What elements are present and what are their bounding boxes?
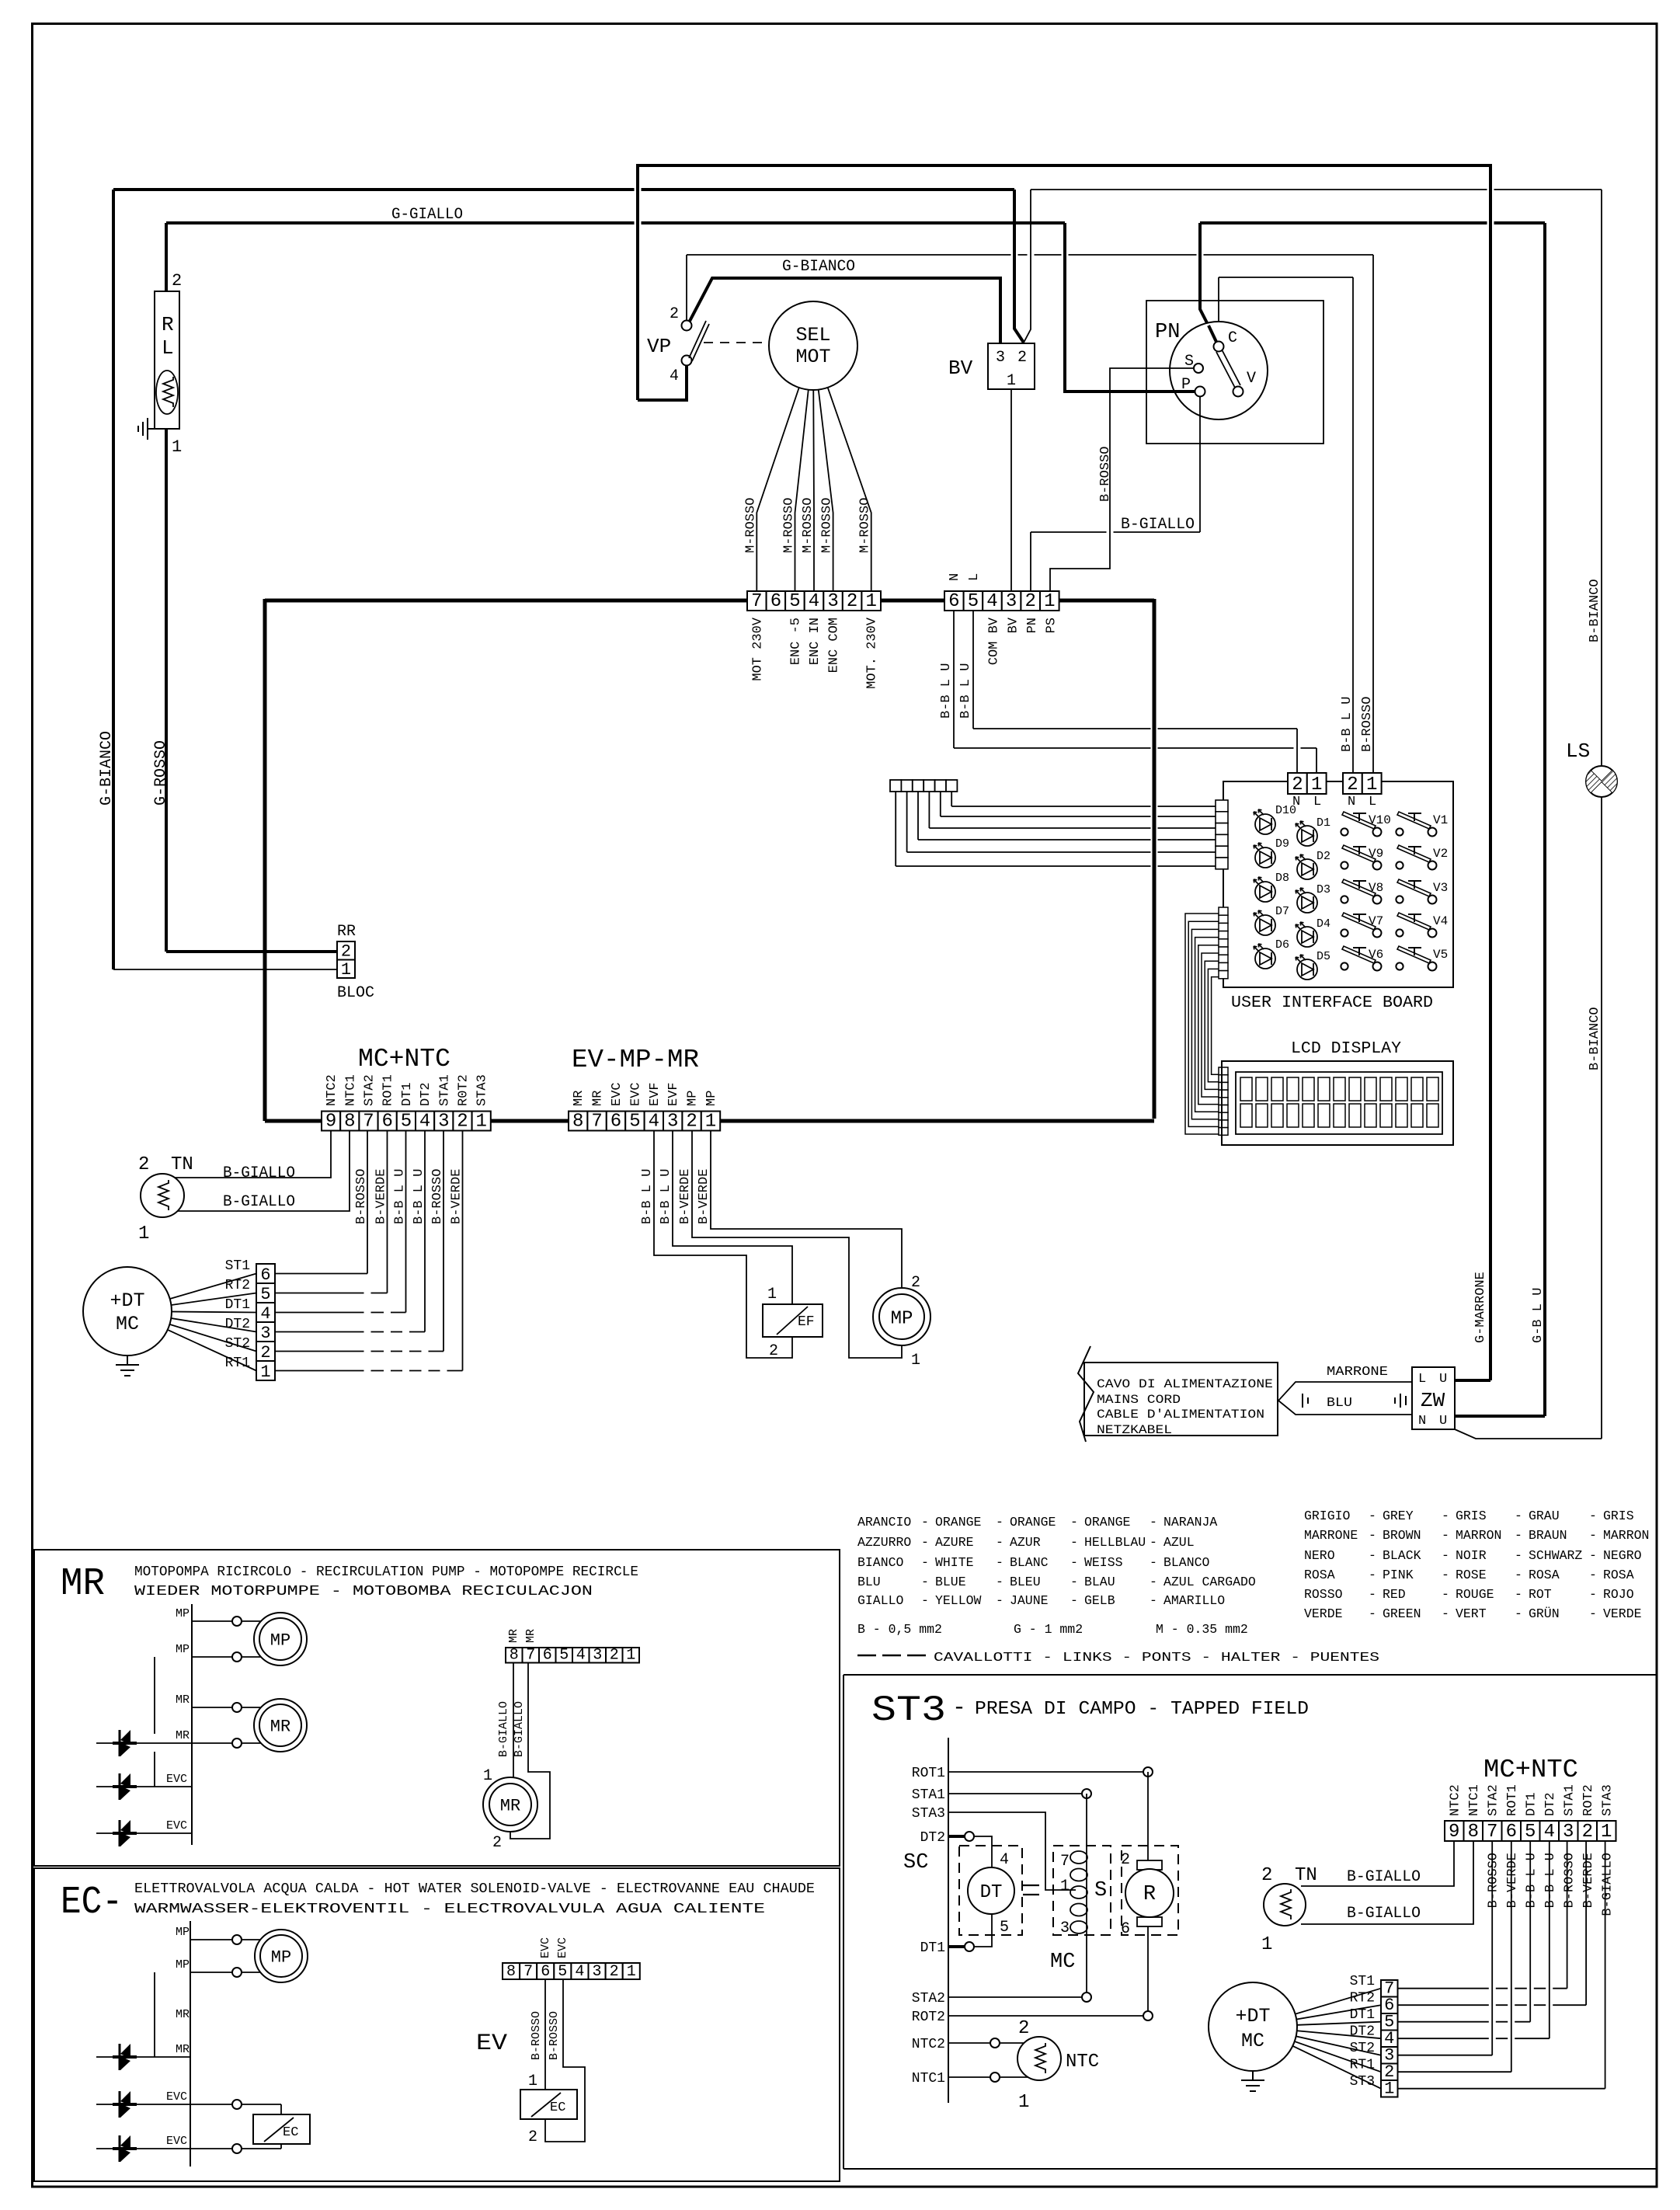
svg-text:MAINS CORD: MAINS CORD [1097,1393,1181,1407]
wires TN ST3 [1301,1841,1454,1886]
svg-text:D7: D7 [1275,905,1289,918]
svg-text:G-B L U: G-B L U [1531,1288,1546,1343]
svg-text:-: - [1150,1515,1157,1530]
wire left vertical G-BIANCO [112,190,115,969]
svg-text:B-ROSSO: B-ROSSO [548,2011,561,2060]
svg-text:ROT1: ROT1 [912,1766,945,1781]
svg-text:3: 3 [593,1647,602,1665]
wire STA3 tap [948,1812,1076,1890]
EC section rail [190,1921,191,2166]
svg-text:B-B L U: B-B L U [640,1169,655,1224]
svg-text:MC: MC [1241,2030,1264,2052]
ST3 section box [843,1675,1657,2169]
svg-text:G-ROSSO: G-ROSSO [152,740,170,806]
svg-text:EV-MP-MR: EV-MP-MR [572,1046,699,1074]
svg-text:1: 1 [1044,591,1055,612]
wires SEL MOT to connector [757,346,813,591]
wire BV pin2 thick drop with kink [1014,190,1024,343]
svg-text:-: - [1150,1535,1157,1550]
svg-text:8: 8 [572,1112,583,1133]
wire BV pin2 thin companion [1024,190,1031,343]
svg-text:B-VERDE: B-VERDE [374,1169,389,1224]
dashed box SC [959,1846,1022,1935]
PN pins [1214,342,1224,352]
svg-text:-: - [1442,1509,1449,1523]
svg-text:2: 2 [911,1274,920,1292]
svg-text:ELETTROVALVOLA ACQUA CALDA - H: ELETTROVALVOLA ACQUA CALDA - HOT WATER S… [134,1881,815,1897]
svg-text:6: 6 [948,591,959,612]
svg-text:WIEDER MOTORPUMPE - MOTOBOMBA: WIEDER MOTORPUMPE - MOTOBOMBA RECICULACJ… [134,1584,593,1599]
svg-text:EV: EV [476,2031,507,2057]
svg-text:1: 1 [172,437,182,457]
wire ZW to LS return [1455,1429,1602,1439]
svg-text:7: 7 [591,1112,602,1133]
svg-text:-: - [1589,1509,1597,1523]
svg-text:-: - [1515,1587,1522,1602]
wire bus y287 right segment to ZW N [1200,221,1545,224]
svg-text:MR: MR [176,1693,190,1707]
svg-text:-: - [1070,1515,1078,1530]
LCD display [1222,1061,1453,1145]
svg-text:L: L [1313,795,1321,809]
svg-text:EC: EC [283,2125,298,2140]
svg-text:6: 6 [260,1265,270,1285]
svg-text:EF: EF [798,1314,815,1330]
svg-text:AZUR: AZUR [1010,1535,1041,1550]
svg-text:+DT: +DT [110,1289,144,1312]
svg-text:1: 1 [1007,372,1016,390]
svg-text:B-B L U: B-B L U [958,663,973,719]
wire PN C feed inside circle [1209,325,1216,342]
svg-text:B-GIALLO: B-GIALLO [1121,516,1195,534]
svg-text:ZW: ZW [1421,1389,1445,1412]
svg-text:DT2: DT2 [225,1317,250,1332]
svg-text:ENC -5: ENC -5 [789,618,804,665]
svg-text:VERDE: VERDE [1304,1606,1343,1621]
svg-text:DT1: DT1 [400,1082,415,1106]
svg-text:L: L [967,573,982,581]
svg-text:-: - [921,1555,929,1570]
svg-text:1: 1 [1311,774,1322,795]
svg-text:LS: LS [1566,740,1590,763]
PN switch bar [1216,350,1240,388]
svg-text:3: 3 [827,591,838,612]
svg-text:-: - [1070,1555,1078,1570]
svg-text:-: - [1070,1593,1078,1608]
svg-text:-: - [1150,1555,1157,1570]
svg-text:RT1: RT1 [1350,2058,1375,2073]
wires DT-MC ST3 connector to strip [1397,1988,1567,1989]
connector DT-MC ST3 7p [1381,1979,1398,2099]
capacitor marks [1023,1885,1039,1886]
svg-text:M-ROSSO: M-ROSSO [801,498,816,553]
svg-text:B-B L U: B-B L U [393,1169,408,1224]
svg-text:4: 4 [670,367,679,385]
motor DT in SC [968,1867,1014,1914]
ground at +DT MC [127,1356,128,1365]
svg-text:ORANGE: ORANGE [1084,1515,1131,1530]
svg-text:-: - [996,1515,1003,1530]
svg-text:-: - [1589,1568,1597,1582]
svg-text:STA2: STA2 [1486,1784,1501,1816]
svg-text:PN: PN [1025,618,1040,633]
svg-text:S: S [1094,1879,1107,1902]
wires DT-MC motor to connector [127,1274,256,1312]
svg-text:MR: MR [572,1091,586,1106]
svg-text:ROSE: ROSE [1456,1568,1487,1582]
svg-text:SC: SC [903,1851,928,1874]
svg-text:MP: MP [176,1643,190,1656]
wires signal connector to UI board stack [895,792,896,866]
wire ZW N to G-B L U [1455,1415,1545,1418]
svg-text:ROT1: ROT1 [1505,1784,1520,1816]
MR wires EVC [96,1786,192,1787]
svg-text:3: 3 [592,1963,601,1981]
switches V1-V5 [1396,812,1436,837]
svg-text:D9: D9 [1275,837,1289,851]
svg-text:ROT2: ROT2 [912,2010,945,2025]
svg-text:-: - [1369,1509,1376,1523]
svg-text:2: 2 [528,2128,537,2146]
wire S bottom to STA2 [1086,1935,1087,1997]
svg-text:EVC: EVC [556,1937,569,1958]
svg-text:BV: BV [948,357,973,380]
svg-text:NARANJA: NARANJA [1163,1515,1217,1530]
svg-text:EVF: EVF [666,1082,681,1106]
svg-text:1: 1 [1601,1822,1612,1843]
svg-text:-: - [1442,1587,1449,1602]
connector stack A on board edge [1216,800,1228,869]
svg-text:2: 2 [1017,349,1027,367]
svg-text:MP: MP [891,1308,913,1329]
solenoid EC in EV branch [520,2090,577,2119]
svg-text:N: N [1418,1414,1426,1429]
svg-text:EVC: EVC [610,1082,624,1106]
svg-text:6: 6 [541,1963,550,1981]
lamp LS [1586,766,1617,797]
motor MP EC-section [255,1930,308,1982]
svg-text:V9: V9 [1369,847,1383,861]
LEDs D10-D6 [1254,809,1275,834]
svg-text:MR: MR [176,2008,190,2021]
svg-text:B-GIALLO: B-GIALLO [513,1701,526,1757]
svg-text:NTC2: NTC2 [912,2037,945,2052]
wires strip2 pins 6 5 B-B L U to NL connectors [953,611,955,748]
svg-text:BIANCO: BIANCO [857,1555,904,1570]
svg-text:2: 2 [138,1154,149,1175]
svg-text:EVC: EVC [166,1819,187,1832]
svg-text:GIALLO: GIALLO [857,1593,904,1608]
svg-text:ROSA: ROSA [1529,1568,1560,1582]
svg-text:CAVALLOTTI - LINKS - PONTS - H: CAVALLOTTI - LINKS - PONTS - HALTER - PU… [934,1651,1379,1665]
link MP2-EVC1 [154,1657,155,1734]
wire bus y244 G-BIANCO-left thick part [113,188,1014,191]
svg-text:M - 0.35 mm2: M - 0.35 mm2 [1156,1622,1248,1637]
svg-text:SCHWARZ: SCHWARZ [1529,1548,1582,1563]
svg-text:AZUL: AZUL [1163,1535,1195,1550]
svg-text:5: 5 [968,591,979,612]
svg-text:G-BIANCO: G-BIANCO [98,731,116,806]
motor MR coupler [483,1777,537,1832]
svg-text:EVF: EVF [648,1082,663,1106]
svg-text:-: - [921,1593,929,1608]
svg-text:-: - [1442,1528,1449,1543]
svg-text:+DT: +DT [1235,2005,1270,2027]
svg-text:MC+NTC: MC+NTC [358,1045,450,1074]
svg-text:G - 1 mm2: G - 1 mm2 [1014,1622,1083,1637]
wires TN to MC+NTC pins 9 8 [162,1130,331,1178]
svg-text:DT2: DT2 [1350,2024,1375,2040]
svg-text:1: 1 [865,591,876,612]
svg-text:B-VERDE: B-VERDE [450,1169,464,1224]
svg-text:AMARILLO: AMARILLO [1163,1593,1225,1608]
svg-text:-: - [996,1593,1003,1608]
svg-text:EVC: EVC [166,2090,187,2104]
legend cavallotti dashes [857,1655,876,1657]
svg-text:ST1: ST1 [225,1258,250,1274]
svg-text:B-B L U: B-B L U [939,663,954,719]
svg-text:ARANCIO: ARANCIO [857,1515,911,1530]
lamp RL [155,291,179,429]
svg-text:-: - [1515,1528,1522,1543]
svg-text:V2: V2 [1433,847,1448,861]
svg-text:MP: MP [270,1631,290,1651]
svg-text:GELB: GELB [1084,1593,1115,1608]
svg-text:PINK: PINK [1383,1568,1414,1582]
svg-text:P: P [1181,376,1191,394]
svg-text:ORANGE: ORANGE [1010,1515,1056,1530]
svg-text:-: - [1515,1509,1522,1523]
svg-text:LCD DISPLAY: LCD DISPLAY [1291,1040,1401,1058]
svg-text:7: 7 [526,1647,535,1665]
svg-text:4: 4 [986,591,997,612]
svg-text:BLU: BLU [1327,1396,1352,1411]
svg-text:4: 4 [1544,1822,1555,1843]
svg-text:2: 2 [457,1112,468,1133]
svg-text:GRIS: GRIS [1603,1509,1634,1523]
wire PN S B-ROSSO to strip2 pin1 [1050,368,1194,591]
svg-text:MOT 230V: MOT 230V [750,617,765,680]
svg-text:5: 5 [789,591,800,612]
svg-text:D4: D4 [1317,917,1330,931]
wire EVF pin3 to EF top [673,1130,792,1304]
svg-text:-: - [1369,1528,1376,1543]
svg-text:PS: PS [1045,618,1059,633]
svg-text:3: 3 [438,1112,449,1133]
svg-text:WARMWASSER-ELEKTROVENTIL - ELE: WARMWASSER-ELEKTROVENTIL - ELECTROVALVUL… [134,1902,765,1917]
svg-text:BV: BV [1006,617,1021,633]
svg-text:1: 1 [341,960,351,980]
svg-text:DT1: DT1 [1350,2007,1375,2023]
wire G-BIANCO to RR pin1 [113,969,337,970]
svg-text:V7: V7 [1369,914,1383,928]
svg-text:C: C [1228,329,1237,347]
svg-text:B-B L U: B-B L U [1340,697,1355,752]
svg-text:DT2: DT2 [1543,1792,1558,1816]
svg-text:2: 2 [1582,1822,1593,1843]
svg-text:B-ROSSO: B-ROSSO [430,1169,445,1224]
svg-text:PN: PN [1155,321,1180,344]
svg-text:5: 5 [1525,1822,1536,1843]
svg-text:G-GIALLO: G-GIALLO [391,206,463,224]
svg-text:NEGRO: NEGRO [1603,1548,1642,1563]
svg-text:-: - [921,1575,929,1589]
svg-text:MARRONE: MARRONE [1304,1528,1358,1543]
wires EV coupler [544,1979,546,2090]
svg-text:DT: DT [980,1882,1003,1903]
svg-text:ROSA: ROSA [1304,1568,1335,1582]
svg-text:2: 2 [847,591,857,612]
svg-text:MR: MR [176,2043,190,2056]
dashed box MC coil [1053,1846,1111,1935]
wire ROT1 to R top [948,1771,1148,1773]
svg-text:D1: D1 [1317,816,1330,830]
svg-text:1: 1 [1060,1878,1070,1895]
svg-text:MOTOPOMPA RICIRCOLO - RECIRCUL: MOTOPOMPA RICIRCOLO - RECIRCULATION PUMP… [134,1564,638,1580]
switches V10-V6 [1341,812,1381,837]
svg-text:B-VERDE: B-VERDE [1581,1853,1596,1908]
motor MP MR-section [254,1613,307,1665]
svg-text:NTC: NTC [1066,2052,1099,2073]
MR wires MR motor [192,1707,262,1708]
svg-text:B-GIALLO: B-GIALLO [1347,1868,1421,1886]
svg-text:R: R [162,313,174,336]
svg-text:V1: V1 [1433,813,1448,827]
wire VP pin4 bottom link [638,365,687,400]
svg-text:-: - [1589,1528,1597,1543]
svg-text:3: 3 [260,1324,270,1343]
svg-text:2: 2 [610,1647,619,1665]
wire PN C thick feed [1200,223,1217,343]
svg-text:WHITE: WHITE [935,1555,974,1570]
svg-text:B-GIALLO: B-GIALLO [223,1164,295,1182]
svg-text:2: 2 [670,305,679,323]
ground at +DT MC ST3 [1252,2071,1254,2080]
svg-text:B-GIALLO: B-GIALLO [1347,1905,1421,1923]
svg-text:1: 1 [483,1767,492,1785]
ST3 left rail [948,1738,949,2103]
svg-text:MARRON: MARRON [1456,1528,1501,1543]
svg-text:MR: MR [524,1629,537,1643]
wire STA1 to S top [948,1793,1087,1794]
svg-text:ST2: ST2 [1350,2041,1375,2056]
svg-text:B-B L U: B-B L U [1543,1853,1558,1908]
svg-text:AZURE: AZURE [935,1535,974,1550]
svg-text:B-GIALLO: B-GIALLO [1600,1853,1615,1916]
svg-text:ENC IN: ENC IN [808,618,823,665]
svg-text:2: 2 [1292,774,1303,795]
svg-text:B-B L U: B-B L U [412,1169,426,1224]
svg-text:STA1: STA1 [437,1074,452,1106]
svg-text:AZZURRO: AZZURRO [857,1535,911,1550]
connector BV [988,343,1035,389]
svg-text:GRIS: GRIS [1456,1509,1487,1523]
svg-text:3: 3 [667,1112,678,1133]
svg-text:NTC1: NTC1 [912,2071,945,2086]
svg-text:ST2: ST2 [225,1336,250,1352]
svg-text:MC+NTC: MC+NTC [1483,1756,1578,1784]
svg-text:B-B L U: B-B L U [1524,1853,1539,1908]
svg-text:SEL: SEL [795,324,830,346]
connector RR [337,941,355,980]
svg-text:4: 4 [419,1112,430,1133]
svg-text:1: 1 [138,1223,149,1244]
svg-text:DT2: DT2 [920,1830,945,1846]
svg-text:B-GIALLO: B-GIALLO [497,1701,510,1757]
wire PN C thin to right NL connector pin2 [1218,277,1219,341]
svg-text:4: 4 [576,1647,586,1665]
svg-text:U: U [1439,1372,1447,1387]
wire VP pin2 thin to right NL connector pin1 [686,255,687,320]
svg-text:MC: MC [1050,1951,1075,1974]
svg-text:B-ROSSO: B-ROSSO [1098,447,1113,502]
wire bus y287 G-GIALLO [166,221,1065,224]
svg-text:1: 1 [626,1647,635,1665]
svg-text:CABLE D'ALIMENTATION: CABLE D'ALIMENTATION [1097,1408,1264,1422]
svg-text:ROT1: ROT1 [381,1074,396,1106]
svg-text:-: - [1369,1568,1376,1582]
svg-text:NOIR: NOIR [1456,1548,1487,1563]
svg-text:V8: V8 [1369,881,1383,895]
svg-text:-: - [921,1535,929,1550]
svg-text:JAUNE: JAUNE [1010,1593,1049,1608]
svg-text:STA1: STA1 [912,1787,945,1803]
svg-text:DT1: DT1 [1524,1792,1539,1816]
svg-text:VP: VP [647,335,671,358]
motor MP main [873,1288,930,1345]
svg-text:G-MARRONE: G-MARRONE [1473,1272,1488,1343]
svg-text:7: 7 [1060,1853,1070,1871]
wire G-ROSSO vertical through RL [165,223,168,952]
svg-text:RT2: RT2 [225,1278,250,1293]
svg-text:2: 2 [341,942,351,962]
svg-text:RT2: RT2 [1350,1991,1375,2006]
svg-text:BROWN: BROWN [1383,1528,1421,1543]
svg-text:MR: MR [61,1562,105,1606]
svg-text:-: - [1369,1548,1376,1563]
svg-text:1: 1 [528,2073,537,2090]
svg-text:6: 6 [381,1112,392,1133]
svg-text:TN: TN [171,1154,193,1175]
svg-text:2: 2 [1018,2018,1029,2039]
wire G-BIANCO thick VP pin2 to BV pin3 [688,278,1000,343]
wire top bus y213 (VP loop to ZW L) [638,165,1490,1380]
svg-text:RR: RR [337,923,356,941]
svg-text:U: U [1439,1414,1447,1429]
svg-text:EVC: EVC [166,1773,187,1786]
svg-text:ST3: ST3 [871,1690,946,1731]
wires MR coupler [513,1662,514,1777]
svg-text:EVC: EVC [628,1082,643,1106]
connector DT-MC 6p [256,1264,275,1382]
svg-text:ENC COM: ENC COM [827,618,842,673]
svg-text:NTC2: NTC2 [1448,1784,1463,1816]
wire thin y244 to LS lamp [1031,189,1602,190]
svg-text:MR: MR [507,1629,520,1643]
svg-text:RT1: RT1 [225,1356,250,1371]
svg-text:DT2: DT2 [419,1082,433,1106]
svg-text:B-ROSSO: B-ROSSO [354,1169,369,1224]
motor +DT MC [83,1267,172,1356]
svg-text:-: - [1515,1606,1522,1621]
svg-text:ROT: ROT [1529,1587,1552,1602]
mains cable channel with arrow [1278,1382,1412,1401]
svg-text:7: 7 [523,1963,533,1981]
svg-text:B-ROSSO: B-ROSSO [530,2011,543,2060]
wire PN P B-GIALLO to strip2 pin2 [1199,396,1201,532]
svg-text:L: L [1418,1372,1426,1387]
svg-text:BLANCO: BLANCO [1163,1555,1210,1570]
